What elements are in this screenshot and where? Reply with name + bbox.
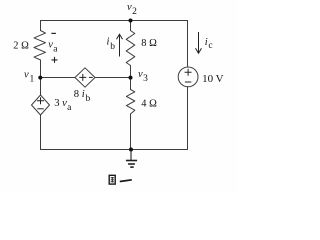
polarity + in source 10V [185,69,192,82]
wire left rail resistor to v1 [40,60,42,78]
svg-text:8 Ω: 8 Ω [141,38,157,49]
wire v1 to source 3va [40,78,42,96]
wire source 3va to bottom rail [40,115,42,150]
voltage source 10V circle [178,67,198,87]
svg-text:v2: v2 [127,2,137,17]
svg-text:va: va [48,40,58,55]
wire left top stub [40,21,42,31]
svg-text:ic: ic [205,37,213,51]
ground node junction dot [129,148,133,152]
wire v1 to source 8ib [41,77,76,79]
wire v2 stub [130,21,132,31]
wire top rail [41,20,188,22]
polarity + in source 3va [37,97,44,109]
voltage polarity − above va [51,32,56,34]
voltage polarity + below va [52,57,58,63]
svg-text:10 V: 10 V [202,73,224,85]
wire 4Ω to ground node [130,114,132,150]
polarity − in source 3va [37,108,43,110]
polarity − in source 10V [185,81,191,83]
figure caption 圖 glyph [109,175,115,184]
wire bottom rail [41,149,188,151]
current arrow ib [117,34,123,56]
wire source 8ib to v3 [95,77,131,79]
resistor 2Ω [34,31,46,61]
svg-text:4 Ω: 4 Ω [141,98,157,109]
node v2 junction dot [129,19,133,23]
svg-text:8 ib: 8 ib [74,89,91,104]
wire 8Ω to v3 [130,66,132,78]
wire right rail upper [187,21,189,68]
svg-text:ib: ib [107,36,116,52]
current arrow ic [196,32,202,53]
resistor 4Ω [126,90,134,115]
dependent source 8ib [75,68,95,87]
ground [126,150,137,168]
wire right rail lower [187,87,189,150]
svg-text:2 Ω: 2 Ω [13,40,29,51]
figure caption 一 glyph [120,180,132,182]
resistor 8Ω [126,31,135,66]
polarity +− in source 8ib [79,74,93,81]
svg-text:v1: v1 [24,70,34,85]
node v3 junction dot [129,76,133,80]
svg-text:3 va: 3 va [54,98,72,113]
svg-text:v3: v3 [138,69,148,84]
wire v3 to 4Ω [130,78,132,90]
dependent source 3va [32,95,50,115]
node v1 junction dot [38,76,42,80]
